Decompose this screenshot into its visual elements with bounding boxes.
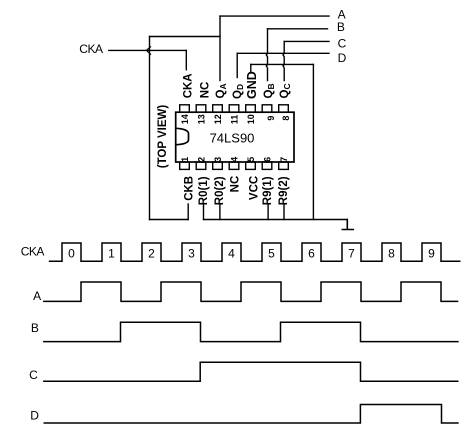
wire CKA input horizontal bbox=[109, 49, 187, 51]
svg-text:8: 8 bbox=[281, 116, 291, 121]
pin 3 box bbox=[213, 162, 223, 169]
wire net C horizontal bbox=[284, 40, 329, 42]
waveform B trace bbox=[43, 322, 459, 341]
svg-text:0: 0 bbox=[68, 247, 75, 261]
waveform D trace bbox=[44, 405, 459, 424]
svg-text:R0(1): R0(1) bbox=[198, 176, 210, 205]
wire feedback top horizontal bbox=[150, 36, 221, 38]
pin 4 box bbox=[229, 162, 239, 169]
pin 12 box bbox=[213, 105, 223, 112]
svg-text:9: 9 bbox=[266, 116, 276, 121]
svg-text:R9(2): R9(2) bbox=[278, 176, 290, 205]
svg-text:6: 6 bbox=[308, 247, 315, 261]
IC U1 notch bbox=[176, 128, 189, 144]
svg-text:2: 2 bbox=[197, 157, 207, 162]
svg-text:D: D bbox=[30, 408, 39, 422]
svg-text:R9(1): R9(1) bbox=[262, 176, 274, 205]
pin 7 box bbox=[279, 162, 289, 169]
svg-text:QD: QD bbox=[232, 84, 245, 99]
svg-text:1: 1 bbox=[180, 157, 190, 162]
pin 6 box bbox=[262, 162, 272, 169]
wire net B horizontal bbox=[268, 28, 328, 30]
wire R0(2) drop bbox=[219, 205, 221, 220]
svg-text:2: 2 bbox=[148, 247, 155, 261]
svg-text:14: 14 bbox=[180, 114, 190, 124]
pin 5 box bbox=[246, 162, 256, 169]
svg-text:11: 11 bbox=[230, 115, 240, 125]
svg-text:1: 1 bbox=[108, 247, 115, 261]
pin 10 box bbox=[246, 105, 256, 112]
wire QB pin vertical with hops bbox=[266, 29, 267, 81]
wire CKB horizontal bbox=[150, 219, 189, 221]
waveform A trace bbox=[43, 282, 458, 301]
waveform C trace bbox=[43, 362, 458, 381]
wire net D horizontal bbox=[237, 52, 329, 54]
ground bbox=[342, 220, 353, 230]
junction CKA node bbox=[146, 47, 150, 54]
wire CKA drop to pin 14 bbox=[185, 50, 187, 69]
svg-text:5: 5 bbox=[246, 157, 256, 162]
svg-text:C: C bbox=[29, 368, 38, 382]
wire R9(1) drop bbox=[267, 204, 269, 220]
pin 14 box bbox=[180, 105, 190, 112]
pin 1 box bbox=[180, 162, 190, 169]
svg-text:3: 3 bbox=[213, 157, 223, 162]
svg-text:12: 12 bbox=[213, 114, 223, 124]
svg-text:7: 7 bbox=[279, 157, 289, 162]
wire QA-to-CKB feedback vertical bbox=[149, 37, 151, 220]
wire reset bus horizontal bbox=[204, 219, 348, 221]
svg-text:9: 9 bbox=[428, 247, 435, 261]
svg-text:CKA: CKA bbox=[21, 244, 45, 258]
svg-text:R0(2): R0(2) bbox=[214, 176, 226, 205]
waveform CKA trace bbox=[49, 243, 461, 261]
IC U1 74LS90 body bbox=[176, 112, 294, 162]
svg-text:QB: QB bbox=[263, 83, 276, 98]
svg-text:(TOP VIEW): (TOP VIEW) bbox=[157, 105, 169, 169]
svg-text:4: 4 bbox=[228, 247, 235, 261]
svg-text:7: 7 bbox=[348, 247, 355, 261]
svg-text:13: 13 bbox=[197, 114, 207, 124]
svg-text:8: 8 bbox=[388, 247, 395, 261]
svg-text:CKB: CKB bbox=[184, 176, 196, 201]
pin 11 box bbox=[229, 105, 239, 112]
svg-text:NC: NC bbox=[230, 176, 242, 193]
wire GND pin stub bbox=[250, 64, 252, 71]
wire QD pin vertical bbox=[236, 53, 238, 77]
wire CKB pin vertical bbox=[187, 204, 189, 220]
pin 2 box bbox=[196, 162, 206, 169]
svg-text:NC: NC bbox=[199, 82, 211, 99]
wire R0(1) drop bbox=[203, 205, 205, 220]
wire QC pin vertical with hops bbox=[283, 41, 284, 80]
svg-text:5: 5 bbox=[268, 247, 275, 261]
wire GND horizontal bbox=[251, 63, 314, 65]
svg-text:C: C bbox=[338, 36, 347, 50]
svg-text:A: A bbox=[33, 289, 41, 303]
svg-text:D: D bbox=[338, 51, 347, 65]
svg-text:B: B bbox=[337, 20, 345, 34]
svg-text:B: B bbox=[31, 321, 39, 335]
svg-text:6: 6 bbox=[263, 157, 273, 162]
svg-text:10: 10 bbox=[246, 114, 256, 124]
wire R9(2) drop bbox=[283, 205, 285, 220]
svg-text:CKA: CKA bbox=[183, 73, 195, 98]
wire net A horizontal bbox=[220, 15, 329, 17]
wire QA pin vertical bbox=[219, 16, 221, 80]
svg-text:3: 3 bbox=[188, 247, 195, 261]
pin 8 box bbox=[279, 105, 289, 112]
svg-text:VCC: VCC bbox=[248, 176, 260, 200]
svg-text:74LS90: 74LS90 bbox=[210, 131, 255, 146]
wire GND drop vertical bbox=[312, 64, 314, 219]
svg-text:4: 4 bbox=[230, 157, 240, 162]
svg-text:QC: QC bbox=[279, 83, 292, 98]
svg-text:GND: GND bbox=[245, 71, 259, 99]
svg-text:QA: QA bbox=[215, 83, 228, 98]
svg-text:CKA: CKA bbox=[79, 42, 103, 56]
pin 9 box bbox=[262, 105, 272, 112]
pin 13 box bbox=[196, 105, 206, 112]
